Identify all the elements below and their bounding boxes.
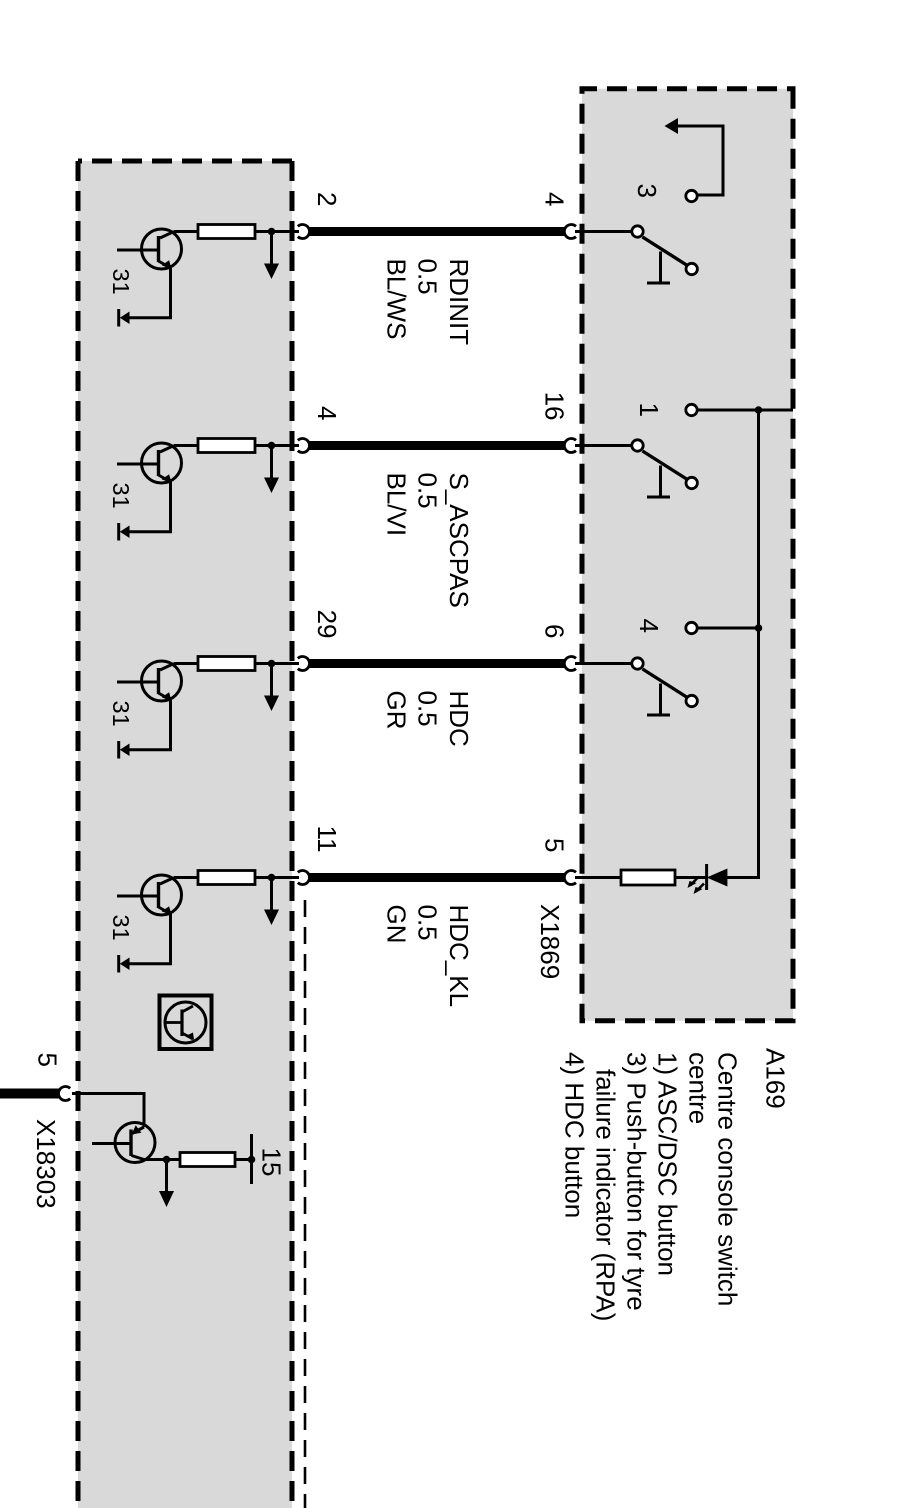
- wire LED cathode to resistor: [675, 876, 707, 879]
- wire inside control module from connector X1869 side pin to resistor (net 4): [255, 876, 299, 879]
- svg-text:1) ASC/DSC button: 1) ASC/DSC button: [653, 1052, 683, 1276]
- wire transistor Q1 emitter to ground: [128, 268, 171, 318]
- pin number 5: [33, 1053, 63, 1067]
- wire transistor Q3 emitter to ground: [128, 700, 171, 750]
- harness wire stub at X18303: [0, 1089, 59, 1099]
- ground terminal 31 symbol: [119, 309, 130, 327]
- ground terminal 31 symbol: [119, 741, 130, 759]
- junction node on wire 1: [268, 228, 276, 236]
- junction node on wire 2: [268, 442, 276, 450]
- switch 3 fixed terminal: [686, 190, 697, 201]
- switch 3 moving contact terminal: [632, 226, 643, 237]
- connector pin 4 at control module: [298, 439, 310, 453]
- junction node at Q5 emitter: [163, 1156, 171, 1164]
- wire resistor R1 to transistor Q1 collector: [174, 230, 198, 233]
- wire inside A169 from connector to switch 3 contact: [575, 230, 632, 233]
- switch 4 lever: [643, 669, 691, 700]
- pin number 4: [540, 192, 570, 206]
- switch 1 push-button actuator: [647, 466, 670, 498]
- svg-text:4) HDC button: 4) HDC button: [560, 1052, 590, 1218]
- wire label HDC 0.5 GR: [382, 691, 475, 747]
- svg-text:X18303: X18303: [31, 1119, 61, 1209]
- legend text Centre console switch centre: [560, 1052, 743, 1321]
- svg-text:GR: GR: [382, 691, 412, 730]
- connector designation X18303: [31, 1119, 61, 1209]
- wire inside control module from connector X1869 side pin to resistor (net 3): [255, 662, 299, 665]
- svg-text:29: 29: [312, 610, 342, 639]
- connector X18303 pin 5: [59, 1087, 71, 1101]
- switch 4 label: [634, 619, 664, 633]
- svg-text:5: 5: [33, 1053, 63, 1067]
- adjacent unit dashed boundary line: [304, 900, 307, 1508]
- wire HDC_KL 0.5 GN (harness wire 4): [309, 873, 565, 882]
- connector pin 4 at A169 (X1869): [564, 225, 576, 239]
- svg-text:4: 4: [634, 619, 664, 633]
- svg-text:15: 15: [257, 1148, 287, 1177]
- resistor R4: [198, 871, 255, 885]
- component designation A169: [761, 1048, 791, 1109]
- switch 4 push-button actuator: [647, 684, 670, 716]
- transistor Q1: [117, 229, 182, 269]
- wire inside control module from connector X1869 side pin to resistor (net 2): [255, 444, 299, 447]
- svg-text:3) Push-button for tyre: 3) Push-button for tyre: [622, 1052, 652, 1311]
- svg-text:A169: A169: [761, 1048, 791, 1109]
- svg-text:2: 2: [312, 192, 342, 206]
- svg-text:BL/WS: BL/WS: [382, 259, 412, 340]
- control module dashed box: [78, 161, 292, 1508]
- switch 3 push-button actuator: [647, 252, 670, 284]
- switch 4 lever end terminal: [686, 695, 697, 706]
- rail junction at switch 4 riser: [755, 624, 763, 632]
- switch 1 fixed terminal: [686, 404, 697, 415]
- switch 1 riser wire to top edge: [697, 409, 793, 412]
- switch 3 actuation arrow linkage: [665, 118, 724, 195]
- wire transistor Q4 emitter to ground: [128, 914, 171, 964]
- terminal 15 supply bar: [250, 1134, 253, 1184]
- ground terminal 31 symbol: [119, 523, 130, 541]
- svg-text:3: 3: [632, 184, 662, 198]
- switch 3 label: [632, 184, 662, 198]
- wire HDC 0.5 GR (harness wire 3): [309, 659, 565, 668]
- switch 4 fixed terminal: [686, 622, 697, 633]
- label terminal 31: [108, 915, 134, 941]
- switch 3 lever: [643, 237, 691, 268]
- svg-text:HDC: HDC: [444, 691, 474, 747]
- junction node on wire 3: [268, 660, 276, 668]
- wire label S_ASCPAS 0.5 BL/VI: [382, 473, 475, 608]
- label terminal 15: [257, 1148, 287, 1177]
- transistor Q4: [117, 875, 182, 915]
- svg-text:31: 31: [108, 701, 134, 727]
- switch unit A169 dashed box: [582, 89, 793, 1021]
- wire X18303 to transistor Q5 collector: [72, 1094, 144, 1128]
- signal continuation arrow from node 4: [264, 878, 279, 926]
- wire transistor Q2 emitter to ground: [128, 482, 171, 532]
- wire node to resistor R5: [167, 1158, 181, 1161]
- transistor Q5: [92, 1123, 155, 1163]
- switch 4 moving contact terminal: [632, 658, 643, 669]
- signal continuation arrow from node 2: [264, 446, 279, 494]
- legend transistor symbol box: [160, 996, 212, 1050]
- svg-text:11: 11: [312, 826, 342, 853]
- svg-text:31: 31: [108, 483, 134, 509]
- svg-text:6: 6: [540, 624, 570, 638]
- LED light emission arrows: [688, 878, 705, 895]
- junction node on wire 4: [268, 874, 276, 882]
- wire inside A169 from connector to switch 1 contact: [575, 444, 632, 447]
- svg-text:RDINIT: RDINIT: [444, 259, 474, 346]
- internal supply rail in A169: [727, 410, 759, 878]
- pin number 16: [540, 392, 570, 421]
- pin number 6: [540, 624, 570, 638]
- wire S_ASCPAS 0.5 BL/VI (harness wire 2): [309, 441, 565, 450]
- svg-text:4: 4: [312, 406, 342, 420]
- signal continuation arrow from node 1: [264, 232, 279, 280]
- label terminal 31: [108, 701, 134, 727]
- pin number 11: [312, 826, 342, 853]
- wire resistor R5 to terminal 15: [235, 1158, 252, 1161]
- connector pin 2 at control module: [298, 225, 310, 239]
- wire resistor R4 to transistor Q4 collector: [174, 876, 198, 879]
- svg-text:BL/VI: BL/VI: [382, 473, 412, 537]
- switch 4 riser wire to supply rail: [697, 627, 758, 630]
- svg-text:5: 5: [540, 838, 570, 852]
- resistor R3: [198, 657, 255, 671]
- svg-text:HDC_KL: HDC_KL: [444, 905, 474, 1008]
- signal continuation arrow from node 3: [264, 664, 279, 712]
- switch 1 lever end terminal: [686, 477, 697, 488]
- LED series resistor: [621, 870, 675, 885]
- transistor Q2: [117, 443, 182, 483]
- wire label RDINIT 0.5 BL/WS: [382, 259, 475, 346]
- svg-text:failure indicator (RPA): failure indicator (RPA): [591, 1069, 621, 1321]
- pin number 2: [312, 192, 342, 206]
- svg-text:GN: GN: [382, 905, 412, 944]
- svg-text:0.5: 0.5: [413, 691, 443, 727]
- wire transistor Q5 emitter to node: [143, 1158, 167, 1161]
- svg-text:0.5: 0.5: [413, 473, 443, 509]
- pin number 5: [540, 838, 570, 852]
- svg-text:Centre console switch: Centre console switch: [713, 1052, 743, 1306]
- svg-text:31: 31: [108, 269, 134, 295]
- pin number 29: [312, 610, 342, 639]
- switch 1 moving contact terminal: [632, 440, 643, 451]
- wire label HDC_KL 0.5 GN: [382, 905, 475, 1008]
- switch 1 lever: [643, 451, 691, 482]
- svg-text:X1869: X1869: [535, 904, 565, 979]
- svg-text:0.5: 0.5: [413, 259, 443, 295]
- resistor R5: [180, 1153, 235, 1167]
- label terminal 31: [108, 269, 134, 295]
- ground terminal 31 symbol: [119, 955, 130, 973]
- wire resistor to pin 5 connector: [575, 876, 621, 879]
- connector designation X1869: [535, 904, 565, 979]
- connector pin 29 at control module: [298, 657, 310, 671]
- connector pin 11 at control module: [298, 871, 310, 885]
- label terminal 31: [108, 483, 134, 509]
- svg-text:S_ASCPAS: S_ASCPAS: [444, 473, 474, 608]
- switch 1 label: [634, 403, 664, 417]
- svg-text:centre: centre: [684, 1052, 714, 1124]
- resistor R1: [198, 225, 255, 239]
- connector pin 16 at A169 (X1869): [564, 439, 576, 453]
- wire RDINIT 0.5 BL/WS (harness wire 1): [309, 227, 565, 236]
- resistor R2: [198, 439, 255, 453]
- svg-text:1: 1: [634, 403, 664, 417]
- connector pin 5 at A169 (X1869): [564, 871, 576, 885]
- svg-text:16: 16: [540, 392, 570, 421]
- rail junction at switch 1 riser: [755, 406, 763, 414]
- junction node at terminal 15: [248, 1156, 256, 1164]
- wire resistor R3 to transistor Q3 collector: [174, 662, 198, 665]
- svg-text:4: 4: [540, 192, 570, 206]
- wire resistor R2 to transistor Q2 collector: [174, 444, 198, 447]
- svg-text:31: 31: [108, 915, 134, 941]
- pin number 4: [312, 406, 342, 420]
- signal continuation arrow from Q5 node: [159, 1160, 174, 1208]
- switch 3 lever end terminal: [686, 263, 697, 274]
- connector pin 6 at A169 (X1869): [564, 657, 576, 671]
- wire inside A169 from connector to switch 4 contact: [575, 662, 632, 665]
- LED indicator diode: [707, 864, 728, 890]
- svg-text:0.5: 0.5: [413, 905, 443, 941]
- transistor Q3: [117, 661, 182, 701]
- wire inside control module from connector X1869 side pin to resistor (net 1): [255, 230, 299, 233]
